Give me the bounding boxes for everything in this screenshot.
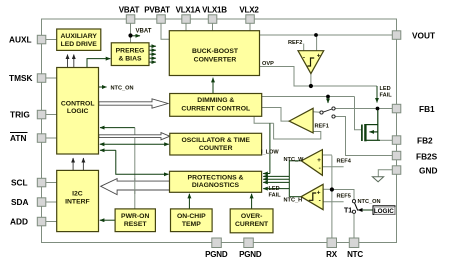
svg-text:+: +: [317, 53, 321, 60]
svg-text:LOGIC: LOGIC: [374, 208, 394, 215]
svg-text:ADD: ADD: [10, 217, 28, 227]
svg-text:NTC: NTC: [347, 250, 363, 259]
svg-text:T1: T1: [344, 208, 352, 215]
svg-text:VLX1A: VLX1A: [176, 6, 201, 15]
svg-text:REF1: REF1: [315, 124, 329, 130]
svg-text:CURRENT: CURRENT: [235, 221, 269, 228]
svg-text:REF5: REF5: [337, 194, 351, 200]
svg-text:OSCILLATOR & TIME: OSCILLATOR & TIME: [181, 137, 250, 144]
svg-text:PGND: PGND: [239, 250, 262, 259]
svg-text:I_LOW: I_LOW: [261, 150, 279, 156]
svg-text:& BIAS: & BIAS: [118, 56, 142, 63]
svg-text:FAIL: FAIL: [269, 192, 282, 198]
svg-text:LED: LED: [269, 186, 280, 192]
svg-text:ON-CHIP: ON-CHIP: [177, 213, 206, 220]
svg-text:INTERF: INTERF: [65, 199, 90, 206]
svg-text:GND: GND: [419, 166, 437, 176]
svg-text:CONTROL: CONTROL: [61, 101, 95, 108]
svg-text:NTC_W: NTC_W: [284, 157, 305, 163]
svg-text:+: +: [317, 190, 321, 197]
svg-text:PGND: PGND: [205, 250, 228, 259]
svg-text:RESET: RESET: [124, 221, 148, 228]
svg-text:VOUT: VOUT: [412, 31, 435, 41]
svg-text:PVBAT: PVBAT: [144, 6, 170, 15]
svg-text:LOGIC: LOGIC: [67, 108, 89, 115]
svg-text:VBAT: VBAT: [136, 29, 152, 35]
svg-text:PROTECTIONS &: PROTECTIONS &: [188, 175, 244, 182]
svg-text:VBAT: VBAT: [119, 6, 140, 15]
svg-text:REF4: REF4: [337, 159, 352, 165]
svg-text:TEMP: TEMP: [182, 221, 201, 228]
svg-text:PWR-ON: PWR-ON: [121, 213, 149, 220]
svg-text:DIMMING &: DIMMING &: [197, 97, 234, 104]
svg-text:OVP: OVP: [262, 61, 274, 67]
svg-text:TMSK: TMSK: [9, 73, 33, 83]
svg-text:BUCK-BOOST: BUCK-BOOST: [192, 48, 239, 55]
svg-text:DIAGNOSTICS: DIAGNOSTICS: [192, 182, 240, 189]
svg-text:+: +: [317, 157, 321, 164]
svg-text:NTC_H: NTC_H: [284, 198, 303, 204]
svg-text:-: -: [303, 55, 305, 62]
svg-text:I2C: I2C: [72, 191, 83, 198]
svg-text:AUXL: AUXL: [9, 35, 32, 45]
svg-text:SCL: SCL: [11, 178, 28, 188]
svg-text:VLX1B: VLX1B: [202, 6, 227, 15]
svg-text:REF2: REF2: [288, 40, 302, 46]
svg-text:VLX2: VLX2: [239, 6, 259, 15]
svg-text:COUNTER: COUNTER: [199, 145, 233, 152]
svg-text:RX: RX: [326, 250, 338, 259]
svg-text:FB1: FB1: [419, 104, 435, 114]
svg-text:LED DRIVE: LED DRIVE: [61, 41, 98, 48]
svg-text:AUXILIARY: AUXILIARY: [61, 33, 98, 40]
svg-text:ATN: ATN: [10, 133, 26, 143]
svg-text:CURRENT CONTROL: CURRENT CONTROL: [181, 106, 250, 113]
svg-text:NTC_ON: NTC_ON: [358, 199, 381, 205]
svg-text:TRIG: TRIG: [10, 110, 30, 120]
svg-text:NTC_ON: NTC_ON: [111, 86, 134, 92]
svg-text:PREREG: PREREG: [116, 48, 145, 55]
svg-text:SDA: SDA: [11, 197, 29, 207]
svg-text:OVER-: OVER-: [241, 213, 263, 220]
svg-text:FB2S: FB2S: [416, 152, 438, 162]
svg-text:LED: LED: [380, 86, 391, 92]
svg-text:FB2: FB2: [417, 136, 433, 146]
svg-text:CONVERTER: CONVERTER: [194, 57, 237, 64]
svg-text:-: -: [319, 198, 321, 205]
svg-text:FAIL: FAIL: [380, 93, 393, 99]
svg-text:-: -: [319, 165, 321, 172]
